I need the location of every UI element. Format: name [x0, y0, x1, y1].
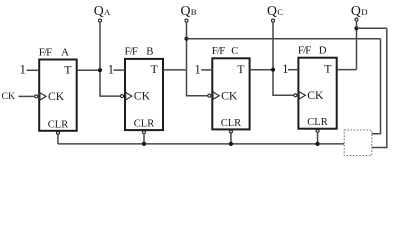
wire feedback right vertical from QD: [372, 28, 387, 147]
svg-text:CLR: CLR: [48, 119, 68, 130]
clock bubble U1: [35, 95, 38, 98]
wire CLR stem U1: [57, 135, 59, 144]
CLR bubble U3: [229, 130, 232, 133]
svg-text:CK: CK: [2, 91, 16, 102]
clock bubble U4: [294, 94, 297, 97]
wire CLR stem U4: [317, 133, 319, 144]
node QB feedback junction: [184, 37, 188, 41]
svg-text:CLR: CLR: [134, 119, 154, 130]
svg-text:D: D: [319, 45, 327, 57]
clock edge triangle U4: [299, 92, 305, 99]
node CLR junction B: [142, 142, 146, 146]
node QA junction: [98, 68, 102, 72]
terminal QA circle: [99, 19, 102, 22]
svg-text:1: 1: [108, 63, 114, 77]
wire QD feedback horizontal: [357, 27, 387, 29]
svg-text:Q: Q: [181, 3, 191, 18]
svg-text:Q: Q: [267, 3, 277, 18]
wire CLR stem U2: [143, 134, 145, 144]
wire QA vertical: [100, 22, 120, 96]
svg-text:1: 1: [20, 63, 26, 77]
svg-text:F/F: F/F: [298, 45, 311, 57]
svg-text:CK: CK: [48, 90, 65, 103]
wire CLR stem U3: [230, 133, 232, 144]
wire U2 Q output: [163, 69, 187, 71]
svg-text:1: 1: [195, 62, 201, 76]
svg-text:B: B: [146, 46, 153, 58]
clock edge triangle U1: [40, 93, 46, 100]
svg-text:F/F: F/F: [39, 46, 52, 58]
svg-text:T: T: [237, 62, 245, 76]
svg-text:Q: Q: [94, 3, 104, 18]
clock bubble U2: [121, 95, 124, 98]
CLR bubble U1: [56, 131, 59, 134]
svg-text:D: D: [361, 7, 367, 17]
clock edge triangle U3: [213, 92, 219, 99]
flip-flop U3 (F/F C) box: [212, 58, 249, 129]
svg-text:CK: CK: [221, 89, 238, 102]
svg-text:CLR: CLR: [221, 118, 241, 129]
svg-text:C: C: [231, 45, 238, 57]
terminal QB circle: [185, 19, 188, 22]
CLR bubble U4: [316, 129, 319, 132]
flip-flop U2 (F/F B) box: [125, 59, 163, 130]
svg-text:A: A: [104, 7, 111, 17]
wire QC vertical: [273, 22, 294, 95]
wire 1 to T of U1: [27, 69, 40, 71]
CLR bubble U2: [143, 131, 146, 134]
svg-text:F/F: F/F: [212, 45, 225, 57]
wire QB vertical: [187, 22, 208, 96]
svg-text:F/F: F/F: [125, 46, 138, 58]
clock bubble U3: [208, 94, 211, 97]
svg-text:T: T: [324, 62, 332, 76]
clock edge triangle U2: [126, 92, 132, 99]
svg-text:A: A: [61, 46, 69, 58]
wire feedback right vertical from QB: [372, 39, 381, 134]
flip-flop U4 (F/F D) box: [298, 58, 336, 129]
wire U4 Q output: [337, 69, 357, 71]
wire U1 Q output: [77, 69, 100, 71]
flip-flop U1 (F/F A) box: [39, 60, 76, 131]
gate G1 reset NAND (dashed placeholder box): [344, 130, 372, 156]
svg-text:Q: Q: [351, 3, 361, 18]
wire 1 to T of U4: [288, 69, 298, 71]
wire QB feedback horizontal: [187, 38, 381, 40]
svg-text:CK: CK: [307, 89, 324, 102]
wire 1 to T of U2: [114, 69, 126, 71]
wire 1 to T of U3: [201, 69, 212, 71]
wire CK input to U1: [19, 95, 35, 97]
terminal QD circle: [355, 18, 358, 21]
svg-text:C: C: [277, 7, 283, 17]
svg-text:T: T: [64, 63, 72, 77]
wire U3 Q output: [250, 69, 273, 71]
node QC junction: [271, 68, 275, 72]
node QD feedback junction: [354, 26, 358, 30]
svg-text:B: B: [191, 7, 197, 17]
wire QD vertical: [356, 21, 358, 70]
node CLR junction D: [315, 142, 319, 146]
svg-text:CK: CK: [134, 90, 151, 103]
svg-text:CLR: CLR: [307, 117, 327, 128]
svg-text:T: T: [151, 62, 159, 76]
wire CLR bus horizontal: [58, 143, 344, 145]
terminal QC circle: [272, 19, 275, 22]
svg-text:1: 1: [282, 62, 288, 76]
node CLR junction C: [229, 142, 233, 146]
